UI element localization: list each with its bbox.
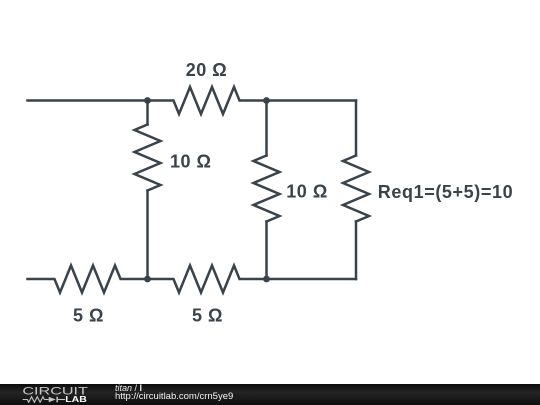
wire R1 upper lead (146, 101, 149, 125)
wire top-right (267, 99, 357, 102)
node junction bottom-right (263, 276, 270, 283)
node junction bottom-left (144, 276, 151, 283)
svg-text:10 Ω: 10 Ω (286, 182, 327, 202)
resistor R2 10ohm vertical middle (254, 156, 280, 222)
svg-text:20 Ω: 20 Ω (186, 60, 227, 80)
svg-text:Req1=(5+5)=10: Req1=(5+5)=10 (378, 182, 513, 202)
wire R2 upper lead (265, 101, 268, 156)
resistor R4 5ohm bottom-left (28, 266, 148, 293)
wire R3 lower (355, 222, 358, 280)
svg-text:5 Ω: 5 Ω (192, 306, 223, 326)
node junction top-left (144, 97, 151, 104)
node junction top-right (263, 97, 270, 104)
wire bottom-right (267, 278, 357, 281)
CircuitLab logo (0, 384, 110, 405)
svg-text:5 Ω: 5 Ω (73, 306, 104, 326)
wire R1 lower (146, 191, 149, 280)
wire R2 lower (265, 222, 268, 280)
logo diode (49, 397, 56, 403)
logo diode wire (58, 399, 65, 401)
logo resistor squiggle (23, 397, 49, 403)
svg-text:LAB: LAB (65, 394, 87, 404)
logo diode bar (56, 397, 58, 403)
svg-text:10 Ω: 10 Ω (170, 152, 211, 172)
wire R3 upper lead (355, 101, 358, 156)
footer credit line 2 (115, 392, 233, 402)
resistor R20 20ohm horizontal top (148, 87, 267, 114)
resistor R1 10ohm vertical left (135, 125, 161, 191)
wire top-left (28, 99, 148, 102)
resistor R3 Req1 vertical right (343, 156, 369, 222)
footer credit line 1 (115, 383, 142, 393)
footer bar (0, 384, 540, 405)
resistor R5 5ohm bottom-middle (148, 266, 267, 293)
